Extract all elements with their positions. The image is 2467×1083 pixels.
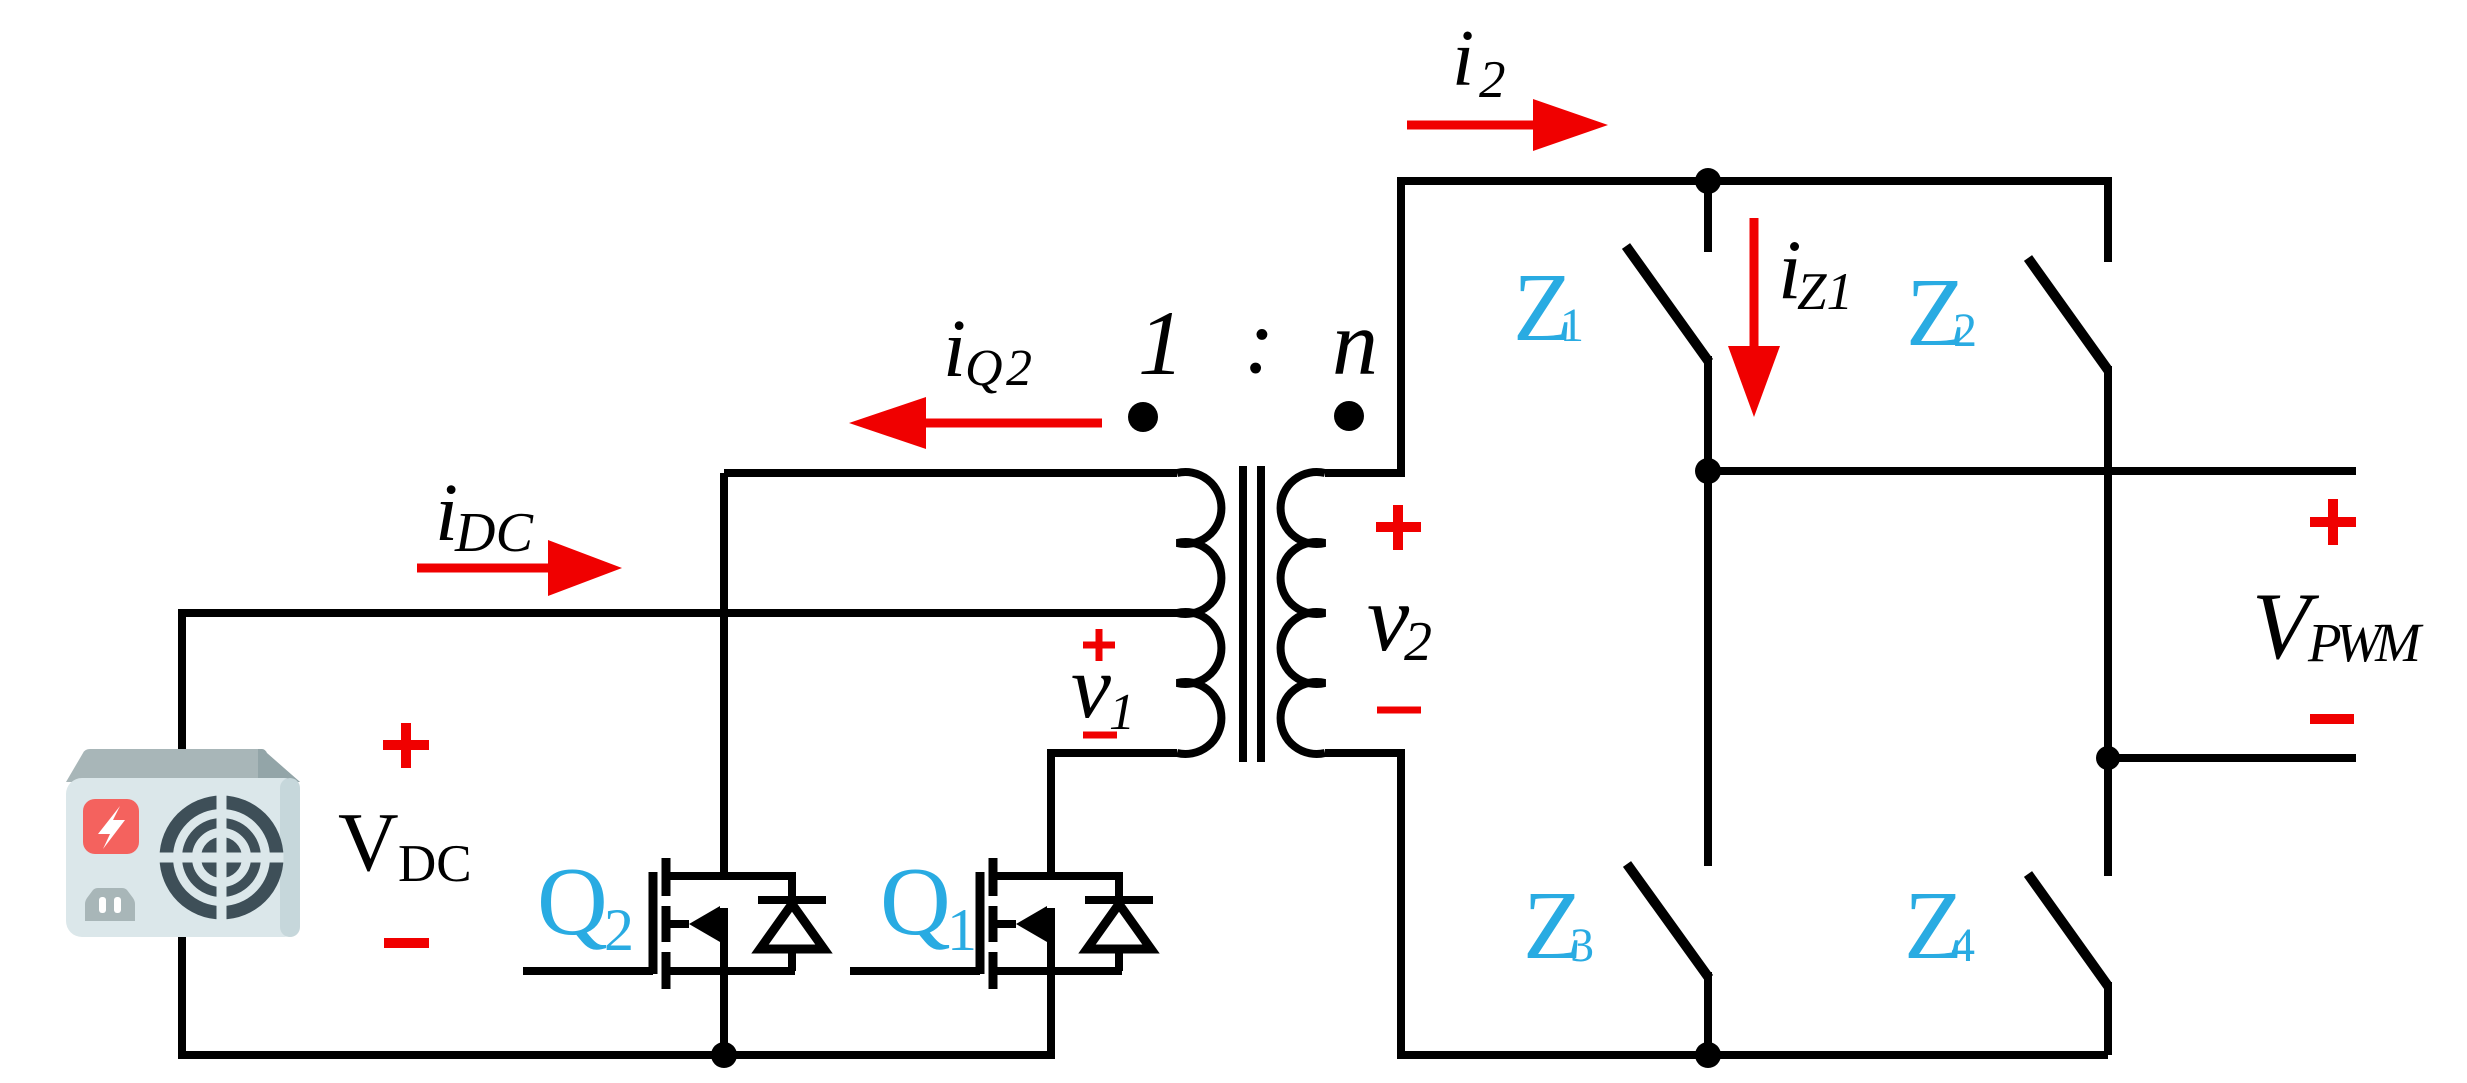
wire: Z2-Z4 column between switches — [2104, 366, 2112, 876]
v2 plus sign — [1376, 505, 1421, 550]
wire: V_PWM minus terminal stub — [2108, 754, 2356, 762]
svg-text::: : — [1244, 290, 1275, 392]
wire: primary bottom lead down to Q1 drain — [1051, 753, 1177, 876]
transformer secondary polarity dot — [1334, 401, 1364, 431]
label Z3 — [1523, 872, 1594, 980]
label v2 — [1367, 565, 1432, 673]
wire: secondary bottom lead down to bottom-right rail across to Z4 — [1325, 753, 2108, 1055]
label i_DC — [435, 466, 534, 564]
svg-text:Q: Q — [880, 848, 951, 956]
wire: middle rail to V_PWM plus terminal — [1708, 467, 2356, 475]
label turns ratio 1 : n — [1138, 290, 1378, 394]
switch Z3 blade — [1627, 864, 1709, 978]
svg-text:2: 2 — [1953, 304, 1977, 357]
svg-text:V: V — [338, 796, 399, 889]
svg-text:Q2: Q2 — [965, 340, 1032, 397]
label Z4 — [1904, 872, 1975, 980]
wire: secondary top lead up to top rail and across to Z2 — [1325, 181, 2108, 473]
switch Z1 blade — [1626, 246, 1709, 362]
svg-text:Z1: Z1 — [1797, 263, 1853, 321]
current arrow i_Q2 — [849, 397, 1102, 449]
svg-text:3: 3 — [1570, 919, 1594, 972]
svg-text:i: i — [1452, 15, 1474, 103]
label i_Q2 — [943, 302, 1032, 397]
transformer primary polarity dot — [1128, 402, 1158, 432]
V_DC plus sign — [383, 723, 429, 768]
svg-text:4: 4 — [1951, 919, 1975, 972]
label Q2 — [537, 848, 634, 963]
current arrow i_2 — [1407, 99, 1608, 151]
label Z1 — [1513, 254, 1584, 362]
label i_Z1 — [1778, 223, 1853, 321]
svg-text:2: 2 — [1479, 51, 1506, 109]
V_DC minus sign — [384, 938, 429, 948]
v2 minus sign — [1377, 707, 1421, 714]
wire: Z3 bottom lead — [1704, 972, 1712, 1055]
switch Z2 blade — [2028, 258, 2108, 370]
switch Z4 blade — [2028, 874, 2108, 986]
svg-text:v: v — [1071, 638, 1111, 737]
svg-text:2: 2 — [1404, 611, 1432, 673]
V_PWM minus sign — [2310, 714, 2354, 724]
wire: left loop (left vertical rail, center-tap wire, bottom-left rail) — [182, 613, 1177, 1055]
node: junction V_PWM minus / Z2-Z4 column — [2096, 746, 2120, 770]
node: junction bottom-right rail / Z3 — [1695, 1042, 1721, 1068]
svg-text:DC: DC — [398, 835, 472, 893]
label i_2 — [1452, 15, 1506, 109]
v1 plus sign — [1083, 629, 1115, 661]
node: junction middle rail / Z1-Z3 column — [1695, 458, 1721, 484]
label Q1 — [880, 848, 977, 963]
node: junction bottom-left rail / Q2 source — [711, 1042, 737, 1068]
transistor Q2 — [523, 858, 826, 1055]
transformer T1 primary winding — [1177, 472, 1221, 754]
svg-text:2: 2 — [604, 897, 634, 963]
wire: Q2 drain feed from primary top lead — [720, 473, 728, 876]
transformer T1 secondary winding — [1281, 472, 1325, 754]
label V_PWM — [2252, 573, 2424, 679]
current arrow i_DC — [417, 540, 622, 596]
transistor Q1 — [850, 858, 1153, 1055]
svg-text:1: 1 — [1109, 684, 1135, 741]
svg-text:DC: DC — [454, 502, 534, 564]
label v1 — [1071, 638, 1135, 741]
wire: primary top lead — [724, 469, 1177, 477]
V_PWM plus sign — [2310, 499, 2356, 545]
label Z2 — [1906, 259, 1977, 367]
wire: Z1 top lead from top rail — [1704, 181, 1712, 252]
transformer T1 core — [1243, 466, 1261, 762]
svg-text:1: 1 — [1560, 299, 1584, 352]
DC power supply icon — [66, 749, 300, 937]
current arrow i_Z1 — [1728, 218, 1780, 417]
v1 minus sign — [1083, 732, 1117, 739]
svg-text:i: i — [943, 302, 966, 394]
svg-text:Q: Q — [537, 848, 608, 956]
svg-text:PWM: PWM — [2307, 612, 2424, 673]
svg-text:1: 1 — [947, 897, 977, 963]
svg-text:1: 1 — [1138, 292, 1184, 394]
node: junction top rail / Z1 — [1695, 168, 1721, 194]
wire: Z1-Z3 column between switches — [1704, 356, 1712, 866]
wire: Z4 bottom lead — [2104, 982, 2112, 1055]
label V_DC — [338, 796, 472, 893]
svg-text:n: n — [1332, 292, 1378, 394]
